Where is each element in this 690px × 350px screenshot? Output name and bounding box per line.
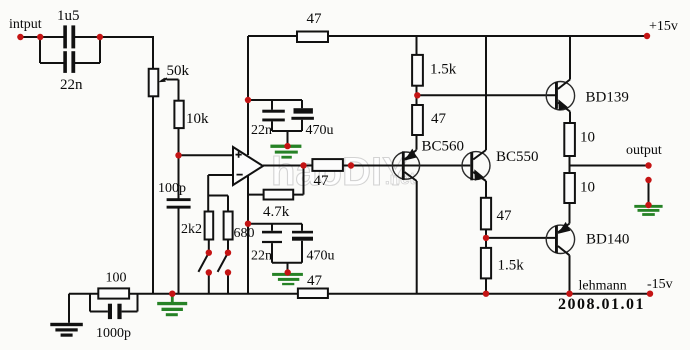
svg-text:47: 47: [307, 11, 323, 27]
svg-text:10: 10: [580, 180, 595, 196]
svg-text:22n: 22n: [60, 77, 83, 93]
svg-text:BC560: BC560: [422, 139, 465, 155]
svg-text:47: 47: [314, 173, 330, 189]
svg-text:+15v: +15v: [649, 19, 678, 34]
svg-text:47: 47: [307, 273, 323, 289]
svg-text:10: 10: [580, 130, 595, 146]
svg-text:47: 47: [497, 208, 513, 224]
svg-text:-15v: -15v: [647, 277, 673, 292]
svg-text:680: 680: [234, 226, 255, 241]
svg-text:470u: 470u: [307, 249, 335, 264]
svg-text:2008.01.01: 2008.01.01: [558, 296, 645, 313]
svg-text:output: output: [626, 143, 662, 158]
svg-text:4.7k: 4.7k: [263, 204, 290, 220]
svg-text:22n: 22n: [251, 249, 272, 264]
svg-text:50k: 50k: [167, 63, 190, 79]
svg-text:2k2: 2k2: [181, 222, 202, 237]
svg-text:100: 100: [106, 271, 127, 286]
svg-text:BD140: BD140: [586, 232, 629, 248]
svg-text:470u: 470u: [306, 123, 334, 138]
svg-text:BC550: BC550: [496, 149, 539, 165]
svg-text:1.5k: 1.5k: [430, 62, 457, 78]
svg-text:1.5k: 1.5k: [498, 258, 525, 274]
svg-text:47: 47: [431, 111, 447, 127]
svg-text:lehmann: lehmann: [579, 279, 627, 294]
svg-text:intput: intput: [9, 17, 42, 32]
svg-text:BD139: BD139: [586, 90, 629, 106]
svg-text:1u5: 1u5: [57, 8, 80, 24]
svg-text:22n: 22n: [251, 123, 272, 138]
svg-text:10k: 10k: [186, 111, 209, 127]
svg-text:100p: 100p: [158, 181, 186, 196]
svg-text:1000p: 1000p: [96, 326, 131, 341]
